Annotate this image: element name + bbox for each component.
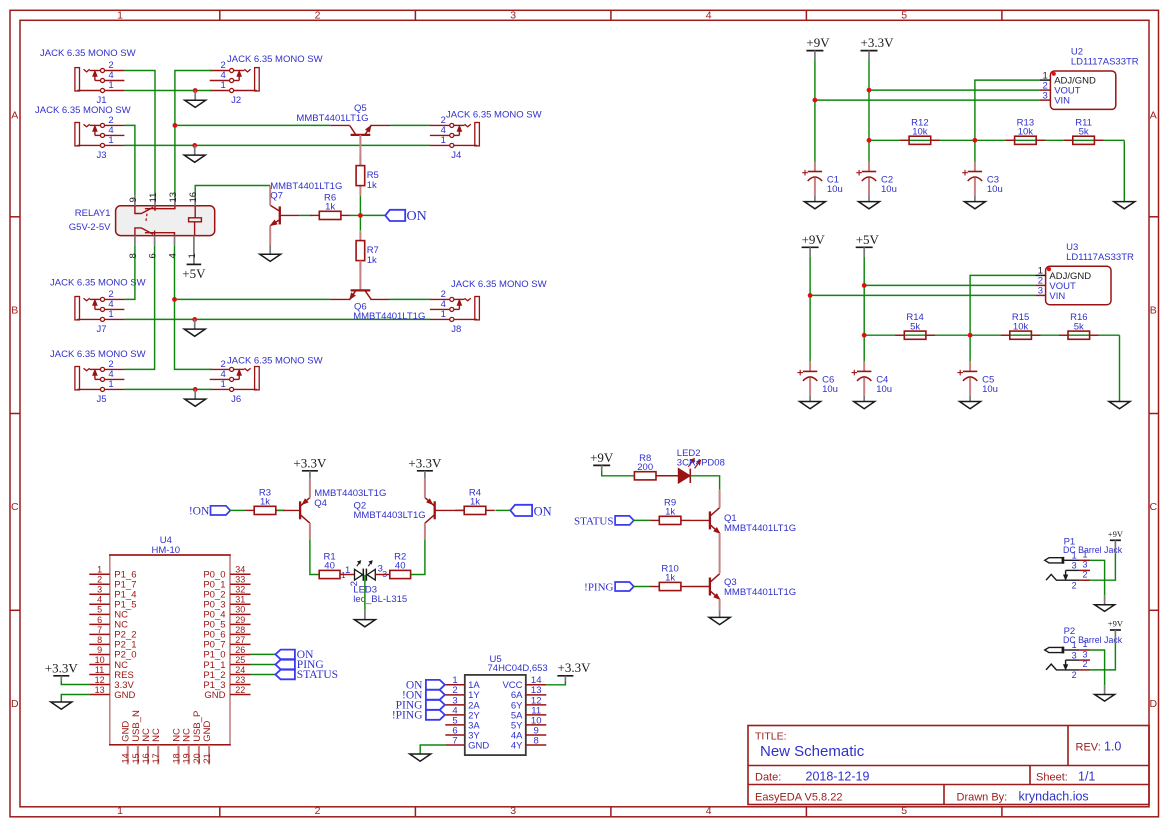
svg-text:DC Barrel Jack: DC Barrel Jack — [1063, 545, 1123, 555]
svg-text:DC Barrel Jack: DC Barrel Jack — [1063, 635, 1123, 645]
svg-text:JACK 6.35 MONO SW: JACK 6.35 MONO SW — [35, 105, 131, 116]
connector J7 JACK 6.35 MONO SW — [50, 277, 146, 335]
svg-text:B: B — [1150, 305, 1157, 317]
svg-text:MMBT4403LT1G: MMBT4403LT1G — [314, 488, 386, 499]
svg-text:200: 200 — [637, 462, 653, 473]
svg-text:D: D — [1150, 698, 1158, 710]
regulator U2 LD1117AS33TR — [1040, 47, 1139, 110]
svg-text:MMBT4401LT1G: MMBT4401LT1G — [353, 311, 425, 322]
svg-text:20: 20 — [192, 753, 202, 763]
svg-text:26: 26 — [235, 645, 245, 655]
svg-text:3: 3 — [1043, 90, 1048, 101]
svg-text:5k: 5k — [1079, 127, 1089, 138]
svg-text:22: 22 — [235, 685, 245, 695]
svg-text:J5: J5 — [96, 394, 106, 405]
ground at U5 pin7 — [410, 754, 431, 761]
svg-text:NC: NC — [151, 728, 162, 742]
svg-text:A: A — [1150, 110, 1157, 122]
svg-text:5k: 5k — [1074, 321, 1084, 332]
svg-text:+3.3V: +3.3V — [293, 455, 327, 470]
svg-text:1: 1 — [220, 80, 225, 91]
svg-text:GND: GND — [204, 690, 225, 701]
svg-text:!PING: !PING — [392, 710, 423, 722]
wire resistor row — [864, 334, 1119, 336]
svg-text:16: 16 — [188, 192, 199, 203]
svg-text:HM-10: HM-10 — [152, 545, 181, 556]
svg-text:4: 4 — [97, 595, 102, 605]
net flag PING at U4 P1_1 — [275, 659, 323, 671]
svg-text:G5V-2-5V: G5V-2-5V — [69, 222, 111, 233]
wire P1 pin1 to ground — [1090, 560, 1105, 595]
svg-text:Q4: Q4 — [314, 498, 327, 509]
title block — [748, 726, 1149, 805]
svg-text:10k: 10k — [1013, 321, 1029, 332]
ground at LED3 — [354, 610, 375, 627]
svg-text:!PING: !PING — [584, 582, 613, 594]
svg-text:+3.3V: +3.3V — [558, 660, 592, 675]
transistor Q7 MMBT4401LT1G — [270, 181, 342, 245]
svg-text:17: 17 — [151, 753, 161, 763]
svg-text:1/1: 1/1 — [1078, 769, 1095, 783]
wire R7 to Q6 base — [359, 261, 361, 291]
svg-text:J6: J6 — [231, 394, 241, 405]
svg-text:Sheet:: Sheet: — [1036, 771, 1068, 783]
wire LED3 pin3 to R2 — [375, 574, 390, 576]
svg-text:3: 3 — [510, 805, 516, 817]
net flag ON output — [510, 504, 551, 518]
svg-text:ON: ON — [407, 209, 427, 224]
svg-text:3: 3 — [1038, 286, 1043, 297]
svg-text:3: 3 — [510, 10, 516, 22]
svg-text:JACK 6.35 MONO SW: JACK 6.35 MONO SW — [50, 277, 146, 288]
resistor R12 10k — [900, 117, 940, 144]
svg-text:+3.3V: +3.3V — [861, 35, 895, 50]
svg-text:REV:: REV: — [1076, 742, 1101, 754]
frame row labels left — [11, 110, 19, 710]
junction J1-J2 ground node — [193, 88, 198, 93]
svg-text:21: 21 — [202, 753, 212, 763]
connector J8 JACK 6.35 MONO SW — [430, 279, 547, 335]
wire +9V to VIN and C — [809, 257, 811, 362]
frame row labels right — [1150, 110, 1158, 710]
junction VOUT node — [867, 88, 872, 93]
wire VIN row — [810, 294, 1035, 296]
wire +3.3V to U4 pin12 — [61, 681, 89, 685]
wire ON node to ON flag — [360, 214, 385, 216]
svg-text:40: 40 — [395, 561, 406, 572]
resistor R9 1k — [650, 497, 690, 524]
svg-text:1k: 1k — [470, 497, 480, 508]
svg-text:JACK 6.35 MONO SW: JACK 6.35 MONO SW — [50, 349, 146, 360]
frame column labels top — [117, 10, 907, 22]
svg-text:2018-12-19: 2018-12-19 — [806, 769, 870, 783]
wire Q2 base to R4 — [455, 509, 465, 511]
connector J2 JACK 6.35 MONO SW — [210, 54, 323, 106]
svg-text:3: 3 — [1082, 649, 1087, 659]
svg-text:5k: 5k — [910, 321, 920, 332]
svg-text:10: 10 — [95, 655, 105, 665]
svg-text:40: 40 — [324, 561, 335, 572]
wire divider to ground — [1123, 140, 1125, 201]
junction ON node — [358, 213, 363, 218]
svg-text:1k: 1k — [665, 507, 675, 518]
svg-text:B: B — [11, 305, 18, 317]
net flag !PING input — [584, 582, 634, 594]
resistor R4 1k — [455, 487, 495, 514]
svg-text:C: C — [1150, 501, 1158, 513]
ground at J7-J8 sleeve net — [184, 319, 205, 336]
transistor Q4 MMBT4403LT1G — [284, 485, 387, 540]
wire J5 pin1 to J6 pin1 — [124, 388, 211, 390]
svg-text:10k: 10k — [1018, 127, 1034, 138]
ground at P2 pin1 — [1095, 685, 1115, 701]
svg-text:1: 1 — [108, 379, 113, 390]
wire divider to ground — [1119, 335, 1121, 401]
svg-text:1k: 1k — [367, 180, 377, 191]
wire Q7 base to R6 — [300, 214, 312, 216]
svg-text:2: 2 — [1072, 580, 1077, 590]
junction VIN node — [813, 98, 818, 103]
resistor R10 1k — [650, 564, 690, 591]
junction VOUT-divider node — [867, 138, 872, 143]
svg-text:13: 13 — [168, 192, 179, 203]
svg-text:3CR4PD08: 3CR4PD08 — [677, 458, 725, 469]
ground at C4 — [854, 396, 875, 409]
svg-text:10k: 10k — [912, 127, 928, 138]
svg-text:7: 7 — [97, 625, 102, 635]
svg-text:led_BL-L315: led_BL-L315 — [353, 594, 407, 605]
wire STATUS flag to R9 — [634, 519, 651, 521]
power +3.3V at Q4 emitter — [293, 455, 327, 485]
svg-text:9: 9 — [128, 197, 139, 202]
wire +9V to R8 — [602, 470, 635, 475]
ground at divider end — [1114, 202, 1135, 209]
net flag PING at U5 pin3 — [396, 700, 445, 712]
svg-text:VIN: VIN — [1054, 96, 1070, 107]
power +5V rail — [856, 232, 880, 257]
net flag STATUS at U4 P1_2 — [275, 669, 338, 681]
wire !ON flag to R3 — [230, 509, 245, 511]
svg-text:4: 4 — [706, 10, 712, 22]
svg-text:D: D — [11, 698, 19, 710]
wire +3.3V to VOUT and C2 — [868, 60, 870, 161]
svg-text:STATUS: STATUS — [297, 669, 338, 681]
svg-text:+5V: +5V — [856, 232, 880, 247]
transistor Q5 MMBT4401LT1G — [296, 103, 390, 165]
svg-text:2: 2 — [1082, 659, 1087, 669]
wire Q6 collector to J8 pin2 — [389, 298, 430, 300]
relay RELAY1 G5V-2-5V — [69, 192, 215, 264]
ic U4 HM-10 — [89, 535, 250, 764]
svg-text:1k: 1k — [665, 573, 675, 584]
ground at C5 — [960, 396, 981, 409]
ic U5 74HC04D,653 — [445, 654, 547, 755]
wire VOUT row — [869, 89, 1040, 91]
wire relay pin16 to Q7 collector — [195, 186, 270, 196]
wire U4 pin13 GND — [61, 695, 89, 703]
svg-text:JACK 6.35 MONO SW: JACK 6.35 MONO SW — [446, 110, 542, 121]
ground at C2 — [859, 196, 880, 209]
svg-text:15: 15 — [131, 753, 141, 763]
svg-text:GND: GND — [468, 740, 489, 751]
svg-text:1: 1 — [117, 10, 123, 22]
junction relay pin13 / Q5 node — [173, 123, 178, 128]
resistor R8 200 — [634, 453, 656, 480]
svg-text:13: 13 — [95, 685, 105, 695]
resistor R11 5k — [1064, 117, 1104, 144]
wire R4 to ON flag — [495, 509, 510, 511]
connector J3 JACK 6.35 MONO SW — [35, 105, 131, 161]
junction J5-J6 ground node — [193, 387, 198, 392]
wire +9V to P2 pin2 — [1090, 643, 1115, 670]
svg-text:10u: 10u — [987, 184, 1003, 195]
svg-text:27: 27 — [235, 635, 245, 645]
svg-text:!ON: !ON — [189, 505, 210, 517]
wire relay pin4 branch to Q6 emitter — [175, 298, 331, 300]
wire J3 pin1 to J4 pin1 — [124, 144, 430, 146]
capacitor C1 10u — [802, 162, 843, 197]
power +9V at P1 — [1108, 529, 1124, 554]
svg-text:1: 1 — [220, 379, 225, 390]
junction ADJ node — [968, 333, 973, 338]
svg-text:4Y: 4Y — [511, 740, 523, 751]
transistor Q1 MMBT4401LT1G — [690, 490, 797, 574]
resistor R5 1k — [356, 156, 379, 195]
resistor R13 10k — [1006, 117, 1046, 144]
power +3.3V at U5 VCC — [557, 660, 591, 681]
net flag STATUS input — [574, 515, 634, 527]
svg-text:1: 1 — [97, 565, 102, 575]
svg-text:J7: J7 — [96, 324, 106, 335]
svg-text:MMBT4401LT1G: MMBT4401LT1G — [270, 181, 342, 192]
svg-text:+9V: +9V — [806, 35, 830, 50]
led LED3 led_BL-L315 (bidirectional) — [341, 561, 407, 605]
svg-text:1k: 1k — [260, 497, 270, 508]
ground at U4 pin13 — [51, 702, 72, 709]
capacitor C3 10u — [962, 162, 1003, 197]
power +3.3V rail — [861, 35, 895, 60]
connector J6 JACK 6.35 MONO SW — [210, 355, 323, 405]
svg-text:2: 2 — [97, 575, 102, 585]
svg-text:74HC04D,653: 74HC04D,653 — [488, 663, 548, 674]
svg-text:6: 6 — [148, 253, 159, 258]
transistor Q6 MMBT4401LT1G — [330, 290, 425, 321]
wire VOUT row — [864, 284, 1035, 286]
net flag ON at U4 P1_0 — [275, 649, 314, 661]
svg-text:J4: J4 — [451, 150, 461, 161]
wire relay pin8 to J7 pin2 — [124, 246, 134, 300]
svg-text:28: 28 — [235, 625, 245, 635]
svg-text:1: 1 — [341, 570, 346, 580]
resistor R6 1k — [310, 192, 350, 219]
svg-text:24: 24 — [235, 665, 245, 675]
svg-text:29: 29 — [235, 615, 245, 625]
svg-text:1: 1 — [117, 805, 123, 817]
frame column ticks top — [220, 10, 1002, 20]
svg-text:3: 3 — [1072, 650, 1077, 660]
wire LED2 cathode to Q1 collector — [690, 476, 719, 490]
wire relay pin6 to J5 pin2 — [124, 246, 154, 370]
wire J1 pin2 to relay pin11 — [124, 71, 155, 196]
svg-text:3: 3 — [1072, 561, 1077, 571]
wire U4 pin25 to PING flag — [251, 664, 276, 666]
power +3.3V at Q2 emitter — [408, 455, 442, 485]
junction relay pin4 / Q6 node — [172, 297, 177, 302]
svg-text:1: 1 — [345, 565, 350, 576]
junction J7-J8 ground node — [192, 317, 197, 322]
svg-text:VIN: VIN — [1049, 291, 1065, 302]
svg-text:+3.3V: +3.3V — [408, 455, 442, 470]
frame row ticks left — [10, 217, 20, 611]
resistor R15 10k — [1001, 312, 1041, 339]
wire !PING flag to R10 — [634, 586, 651, 588]
svg-text:32: 32 — [235, 585, 245, 595]
svg-text:A: A — [11, 110, 18, 122]
wire VIN row — [815, 99, 1040, 101]
wire +5V to VOUT and C2 — [863, 257, 865, 362]
connector P1 DC Barrel Jack — [1045, 536, 1123, 590]
wire U4 pin26 to ON flag — [251, 653, 276, 655]
capacitor C4 10u — [852, 361, 893, 396]
svg-text:3: 3 — [1082, 560, 1087, 570]
svg-text:GND: GND — [202, 721, 213, 742]
wire relay pin13 branch to Q5 collector — [175, 124, 330, 126]
svg-text:+9V: +9V — [590, 450, 614, 465]
resistor R7 1k — [356, 231, 379, 270]
ground at J1-J2 sleeve net — [185, 91, 206, 108]
resistor R16 5k — [1059, 312, 1099, 339]
wire ADJ to resistor divider — [970, 275, 1035, 361]
resistor R14 5k — [895, 312, 935, 339]
ground at Q3 emitter — [709, 610, 730, 624]
svg-text:1: 1 — [108, 80, 113, 91]
ground at divider end — [1109, 402, 1130, 409]
svg-text:1: 1 — [108, 135, 113, 146]
wire R3 to Q4 base — [277, 509, 284, 511]
svg-text:MMBT4401LT1G: MMBT4401LT1G — [724, 587, 796, 598]
svg-text:6: 6 — [97, 615, 102, 625]
wire ADJ to resistor divider — [975, 80, 1040, 161]
junction VOUT node — [862, 283, 867, 288]
net flag !PING at U5 pin4 — [392, 710, 445, 722]
power +5V at relay pin1 — [182, 264, 206, 281]
svg-text:10u: 10u — [822, 384, 838, 395]
svg-text:3: 3 — [97, 585, 102, 595]
wire resistor row — [869, 139, 1124, 141]
svg-text:ON: ON — [534, 504, 552, 518]
junction VOUT-divider node — [862, 333, 867, 338]
resistor R3 1k — [245, 487, 285, 514]
svg-text:kryndach.ios: kryndach.ios — [1019, 789, 1089, 803]
svg-text:10u: 10u — [982, 384, 998, 395]
svg-text:1k: 1k — [367, 255, 377, 266]
power +9V rail — [806, 35, 830, 60]
svg-text:EasyEDA V5.8.22: EasyEDA V5.8.22 — [755, 791, 842, 803]
wire J2 pin2 to relay pin13 — [175, 71, 212, 196]
svg-text:C: C — [11, 501, 19, 513]
svg-text:5: 5 — [901, 10, 907, 22]
svg-text:RELAY1: RELAY1 — [75, 208, 111, 219]
svg-text:14: 14 — [121, 753, 131, 763]
wire R6 to ON node — [349, 214, 360, 216]
wire J1 pin1 to J2 pin1 — [124, 90, 211, 92]
wire +9V to P1 pin2 — [1090, 553, 1115, 580]
wire Q5 emitter to J4 pin2 — [390, 124, 430, 126]
svg-text:JACK 6.35 MONO SW: JACK 6.35 MONO SW — [40, 48, 136, 59]
capacitor C2 10u — [856, 162, 897, 197]
wire P2 pin1 to ground — [1090, 650, 1105, 685]
svg-text:9: 9 — [97, 645, 102, 655]
net flag ON at U5 pin1 — [406, 679, 445, 691]
svg-text:GND: GND — [114, 690, 135, 701]
wire +9V to VIN and C — [814, 60, 816, 161]
wire Q4 collector to R1 — [310, 540, 319, 575]
junction J3-J4 ground node — [192, 143, 197, 148]
svg-text:+9V: +9V — [802, 232, 826, 247]
wire U5 VCC to +3.3V — [546, 681, 565, 685]
capacitor C5 10u — [957, 361, 998, 396]
ground at P1 pin1 — [1095, 595, 1115, 611]
svg-text:JACK 6.35 MONO SW: JACK 6.35 MONO SW — [227, 54, 323, 65]
connector P2 DC Barrel Jack — [1045, 626, 1123, 680]
ground at C3 — [964, 196, 985, 209]
svg-text:J3: J3 — [96, 150, 106, 161]
connector J4 JACK 6.35 MONO SW — [430, 110, 542, 162]
connector J5 JACK 6.35 MONO SW — [50, 349, 146, 405]
svg-text:8: 8 — [534, 735, 539, 746]
svg-text:New Schematic: New Schematic — [760, 743, 865, 760]
ground at Q7 emitter — [260, 245, 281, 261]
net flag !ON input — [189, 505, 230, 517]
svg-text:MMBT4401LT1G: MMBT4401LT1G — [296, 113, 368, 124]
regulator U3 LD1117AS33TR — [1035, 242, 1134, 305]
frame row ticks right — [1149, 217, 1159, 611]
svg-text:8: 8 — [97, 635, 102, 645]
resistor R1 40 — [319, 552, 340, 579]
wire LED3 pin2 to ground — [364, 575, 366, 611]
connector J1 JACK 6.35 MONO SW — [40, 48, 136, 106]
ground at C1 — [804, 196, 825, 209]
svg-text:STATUS: STATUS — [574, 515, 613, 527]
svg-text:18: 18 — [172, 753, 182, 763]
svg-text:1: 1 — [441, 309, 446, 320]
ground at J3-J4 sleeve net — [184, 145, 205, 162]
led LED2 3CR4PD08 — [677, 448, 725, 483]
power +3.3V at U4 pin12 — [45, 660, 79, 681]
svg-text:+5V: +5V — [182, 266, 206, 281]
svg-text:J2: J2 — [231, 95, 241, 106]
svg-text:+9V: +9V — [1108, 529, 1124, 539]
svg-text:34: 34 — [235, 565, 245, 575]
power +9V at R8 — [590, 450, 614, 471]
svg-text:19: 19 — [182, 753, 192, 763]
svg-text:11: 11 — [148, 193, 159, 203]
svg-text:MMBT4403LT1G: MMBT4403LT1G — [354, 510, 426, 521]
svg-text:2: 2 — [1082, 569, 1087, 579]
svg-text:8: 8 — [128, 253, 139, 258]
svg-text:1: 1 — [108, 309, 113, 320]
svg-text:JACK 6.35 MONO SW: JACK 6.35 MONO SW — [451, 279, 547, 290]
frame column ticks bottom — [220, 807, 1002, 817]
svg-text:10u: 10u — [881, 184, 897, 195]
svg-text:J8: J8 — [451, 324, 461, 335]
wire R5 to R7 / ON node — [359, 195, 361, 231]
svg-text:1.0: 1.0 — [1104, 740, 1121, 754]
svg-text:+9V: +9V — [1108, 619, 1124, 629]
svg-text:7: 7 — [452, 735, 457, 746]
svg-text:Drawn By:: Drawn By: — [957, 791, 1008, 803]
svg-text:TITLE:: TITLE: — [755, 730, 787, 742]
